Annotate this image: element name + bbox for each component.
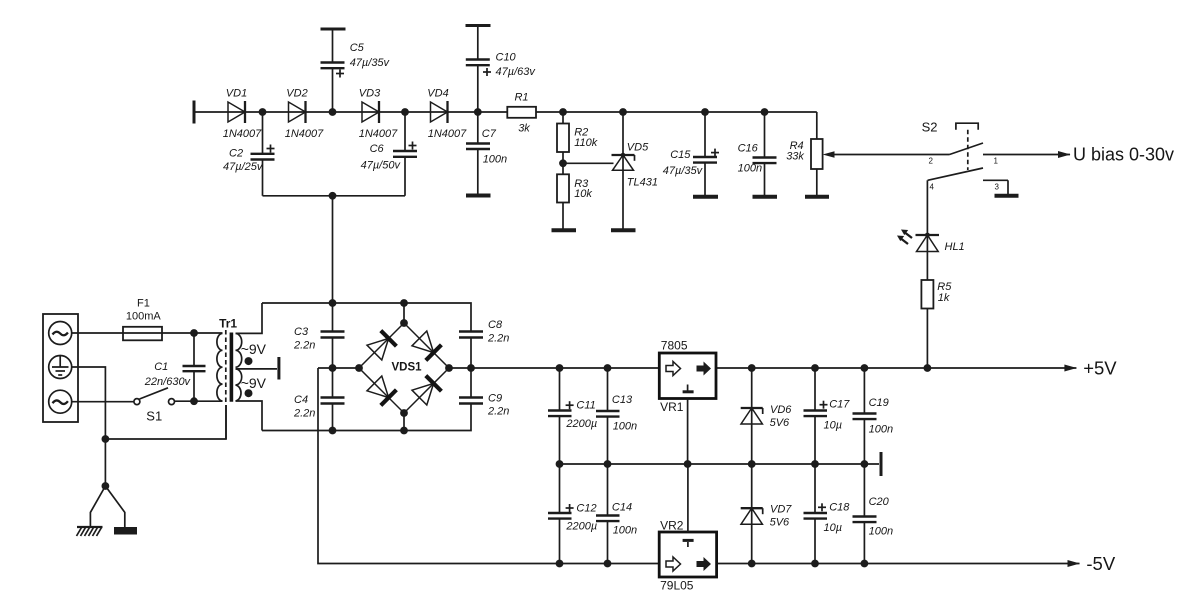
svg-text:100n: 100n [483,154,507,166]
wire AC bottom rail [262,404,471,431]
svg-text:100n: 100n [869,526,893,538]
capacitor C20 [853,464,894,564]
capacitor C1 [144,333,206,401]
svg-text:47µ/35v: 47µ/35v [350,57,391,69]
node 0V junction C11 [556,460,564,468]
ground S2 pin3 [995,194,1019,198]
svg-text:C2: C2 [229,148,243,160]
fuse F1 [123,298,162,341]
capacitor C5 [321,29,391,112]
node 0V junction C19 [861,460,869,468]
potentiometer R4 [786,112,822,197]
capacitor C18 [804,464,851,564]
capacitor C2 [223,112,275,196]
LED HL1 [897,230,965,254]
resistor R1 [507,92,536,135]
svg-text:C14: C14 [612,502,632,514]
node pump input terminal [193,101,196,124]
switch S2 [922,120,1070,196]
svg-text:2.2n: 2.2n [487,406,509,418]
node C1 bottom junction [190,397,198,405]
node junction VD3-VD4 [401,108,409,116]
svg-text:C12: C12 [576,503,596,515]
capacitor C10 [466,26,537,113]
node -raw junction C12 [556,560,564,568]
node AC bottom rail C4 junction [329,427,337,435]
ground C16 [753,195,778,199]
svg-text:C18: C18 [829,502,850,514]
diode VD1 [223,88,262,141]
node pump return junction [329,192,337,200]
wire neutral to S1 [72,401,134,403]
svg-text:C5: C5 [350,42,365,54]
shunt regulator VD5 TL431 [612,108,659,230]
svg-text:4: 4 [930,183,935,192]
wire earth to transformer screen [105,405,226,439]
resistor R3 [557,163,592,230]
svg-text:2.2n: 2.2n [487,333,509,345]
svg-text:C11: C11 [576,400,595,412]
wire R2R3 node to VD5 [563,162,614,164]
svg-text:100n: 100n [869,424,893,436]
wire center tap [236,368,278,370]
svg-text:VD3: VD3 [359,88,381,100]
svg-text:VD2: VD2 [286,88,307,100]
resistor R2 [557,112,598,163]
svg-text:C3: C3 [294,326,309,338]
svg-text:C7: C7 [482,128,497,140]
wire fork right [105,486,124,527]
wire pump bottom return [263,195,406,197]
wire secondary top to AC rail [236,303,263,333]
connector X1 body [43,314,78,422]
svg-text:10k: 10k [574,188,592,200]
zener VD6 [741,368,793,464]
svg-text:C10: C10 [496,52,517,64]
transformer Tr1 [217,317,267,440]
connector pin earth [49,356,72,379]
earth bar [114,527,137,535]
wire AC top rail [262,303,471,332]
svg-text:1N4007: 1N4007 [285,128,324,140]
node -5V arrow [1068,560,1080,567]
bridge diode top-left [367,338,389,360]
svg-text:79L05: 79L05 [660,579,694,593]
diode VD3 [359,88,398,141]
resistor R5 [921,280,952,368]
wire earth from connector [72,367,106,486]
svg-text:VD7: VD7 [770,504,792,516]
svg-text:2200µ: 2200µ [565,418,597,430]
chassis ground [77,527,103,536]
svg-text:C6: C6 [370,143,385,155]
svg-text:33k: 33k [786,151,804,163]
svg-text:2.2n: 2.2n [293,340,315,352]
svg-text:1N4007: 1N4007 [223,128,262,140]
svg-text:10µ: 10µ [824,420,843,432]
capacitor C3 [293,303,345,368]
bridge diode bottom-left [367,376,389,398]
ground C15 [693,195,718,199]
wire bridge minus segment [318,367,359,369]
svg-text:-5V: -5V [1086,553,1115,574]
svg-text:S2: S2 [922,120,938,135]
node -5V junction C18 [811,560,819,568]
svg-text:2200µ: 2200µ [565,521,597,533]
svg-text:100mA: 100mA [126,311,162,323]
node earth junction 1 [102,435,110,443]
svg-text:C15: C15 [670,149,691,161]
wiper arrowhead [823,151,835,158]
ground C7 [466,194,491,198]
regulator VR2 79L05 [659,519,716,593]
node AC top rail bridge junction [400,299,408,307]
pin VR1 ground [687,399,689,465]
svg-text:100n: 100n [613,525,637,537]
node junction VD4-C10-C7 [474,108,482,116]
switch S1 [134,388,175,424]
wire pump rail right of R1 [536,111,817,113]
node earth fork junction [102,482,110,490]
bridge diode top-right [412,331,434,353]
wire plus raw rail [449,367,659,369]
wire zero volt rail [560,463,880,465]
svg-text:S1: S1 [146,409,162,424]
capacitor C6 [361,112,417,196]
svg-text:VD6: VD6 [770,404,792,416]
node C3C4 junction [329,364,337,372]
svg-text:~9V: ~9V [241,375,267,391]
capacitor C16 [738,108,777,197]
svg-text:+5V: +5V [1083,358,1117,379]
capacitor C8 [459,319,509,368]
svg-text:C20: C20 [869,496,890,508]
node zero rail terminal [880,452,883,476]
capacitor C7 [466,112,507,196]
node C1 top junction [190,329,198,337]
svg-text:R1: R1 [514,92,528,104]
node AC bottom rail bridge junction [400,427,408,435]
node U bias output arrow [1058,151,1071,158]
node C8C9 junction [467,364,475,372]
svg-text:HL1: HL1 [945,241,965,253]
node 0V junction C17 [811,460,819,468]
svg-text:C8: C8 [488,319,503,331]
wire fork left [90,486,105,527]
svg-text:C19: C19 [869,397,889,409]
svg-text:47µ/50v: 47µ/50v [361,160,402,172]
connector pin L (~) [49,322,72,345]
node +5V junction VD6 [748,364,756,372]
svg-text:VD4: VD4 [427,88,448,100]
svg-text:VR2: VR2 [660,519,684,533]
node center tap terminal [277,357,280,380]
diode VD4 [427,88,467,141]
wire minus drop [318,368,659,564]
svg-text:~9V: ~9V [241,341,267,357]
svg-text:C4: C4 [294,394,308,406]
svg-text:C16: C16 [738,143,759,155]
diode VD2 [285,88,324,141]
node 0V junction VR ground [684,460,692,468]
capacitor C19 [853,364,894,464]
capacitor C14 [596,464,637,564]
pin VR2 ground [687,464,689,532]
svg-text:C9: C9 [488,393,502,405]
node 0V junction C13 [604,460,612,468]
wire pump return to AC rail [332,196,334,303]
svg-text:C1: C1 [154,361,168,373]
wire S1 to transformer [175,400,223,402]
wire minus output rail [717,563,1080,565]
node +5V arrow [1064,365,1076,372]
svg-text:1N4007: 1N4007 [428,128,467,140]
node 0V junction VD6 [748,460,756,468]
svg-text:2.2n: 2.2n [293,408,315,420]
svg-text:1: 1 [994,157,999,166]
node -5V junction C20 [861,560,869,568]
node +5V junction R5 [924,364,932,372]
svg-text:1N4007: 1N4007 [359,128,398,140]
svg-text:5V6: 5V6 [770,517,790,529]
svg-text:TL431: TL431 [627,177,658,189]
svg-text:U bias 0-30v: U bias 0-30v [1073,145,1174,165]
svg-text:VD5: VD5 [627,142,649,154]
svg-text:22n/630v: 22n/630v [144,376,192,388]
zener VD7 [741,464,793,564]
svg-text:1k: 1k [938,292,950,304]
wire secondary bottom to AC rail [236,401,263,431]
wire pump rail left [194,111,507,113]
svg-text:7805: 7805 [661,339,688,353]
svg-text:3: 3 [995,183,1000,192]
wire S2 pin4 to HL1 [926,180,928,280]
svg-text:47µ/35v: 47µ/35v [663,165,704,177]
svg-text:47µ/25v: 47µ/25v [223,161,264,173]
bridge rectifier VDS1 [355,303,453,431]
svg-text:47µ/63v: 47µ/63v [496,66,537,78]
capacitor C15 [663,108,719,197]
wire live to fuse [72,332,223,334]
node -5V junction VD7 [748,560,756,568]
capacitor C17 [804,364,851,464]
svg-text:C17: C17 [829,399,850,411]
svg-text:110k: 110k [574,137,598,149]
node junction R2-R3-VD5 [559,159,567,167]
ground VD5 [611,228,636,232]
svg-text:100n: 100n [738,163,762,175]
ground R3 [552,228,577,232]
node AC top rail C3 junction [329,299,337,307]
svg-text:VR1: VR1 [660,400,684,414]
capacitor C4 [293,368,345,431]
wire plus output rail [716,367,1076,369]
connector pin N (~) [49,390,72,413]
svg-text:100n: 100n [613,421,637,433]
svg-text:Tr1: Tr1 [219,317,237,331]
svg-text:VD1: VD1 [226,88,247,100]
capacitor C12 [548,464,597,564]
svg-text:10µ: 10µ [824,522,843,534]
svg-text:2: 2 [929,157,934,166]
svg-text:VDS1: VDS1 [392,362,423,374]
capacitor C13 [596,364,637,464]
capacitor C11 [548,364,597,464]
svg-text:F1: F1 [137,298,150,310]
node junction VD2-VD3 [329,108,337,116]
bridge diode bottom-right [412,383,434,405]
node -raw junction C14 [604,560,612,568]
svg-text:C13: C13 [612,394,633,406]
ground R4 [805,195,829,199]
wire R4 wiper from S2 [833,154,950,156]
node junction R1-R2 [559,108,567,116]
svg-text:5V6: 5V6 [770,417,790,429]
capacitor C9 [459,368,509,418]
svg-text:3k: 3k [518,123,530,135]
node junction VD1-VD2 [259,108,267,116]
regulator VR1 7805 [659,339,716,415]
